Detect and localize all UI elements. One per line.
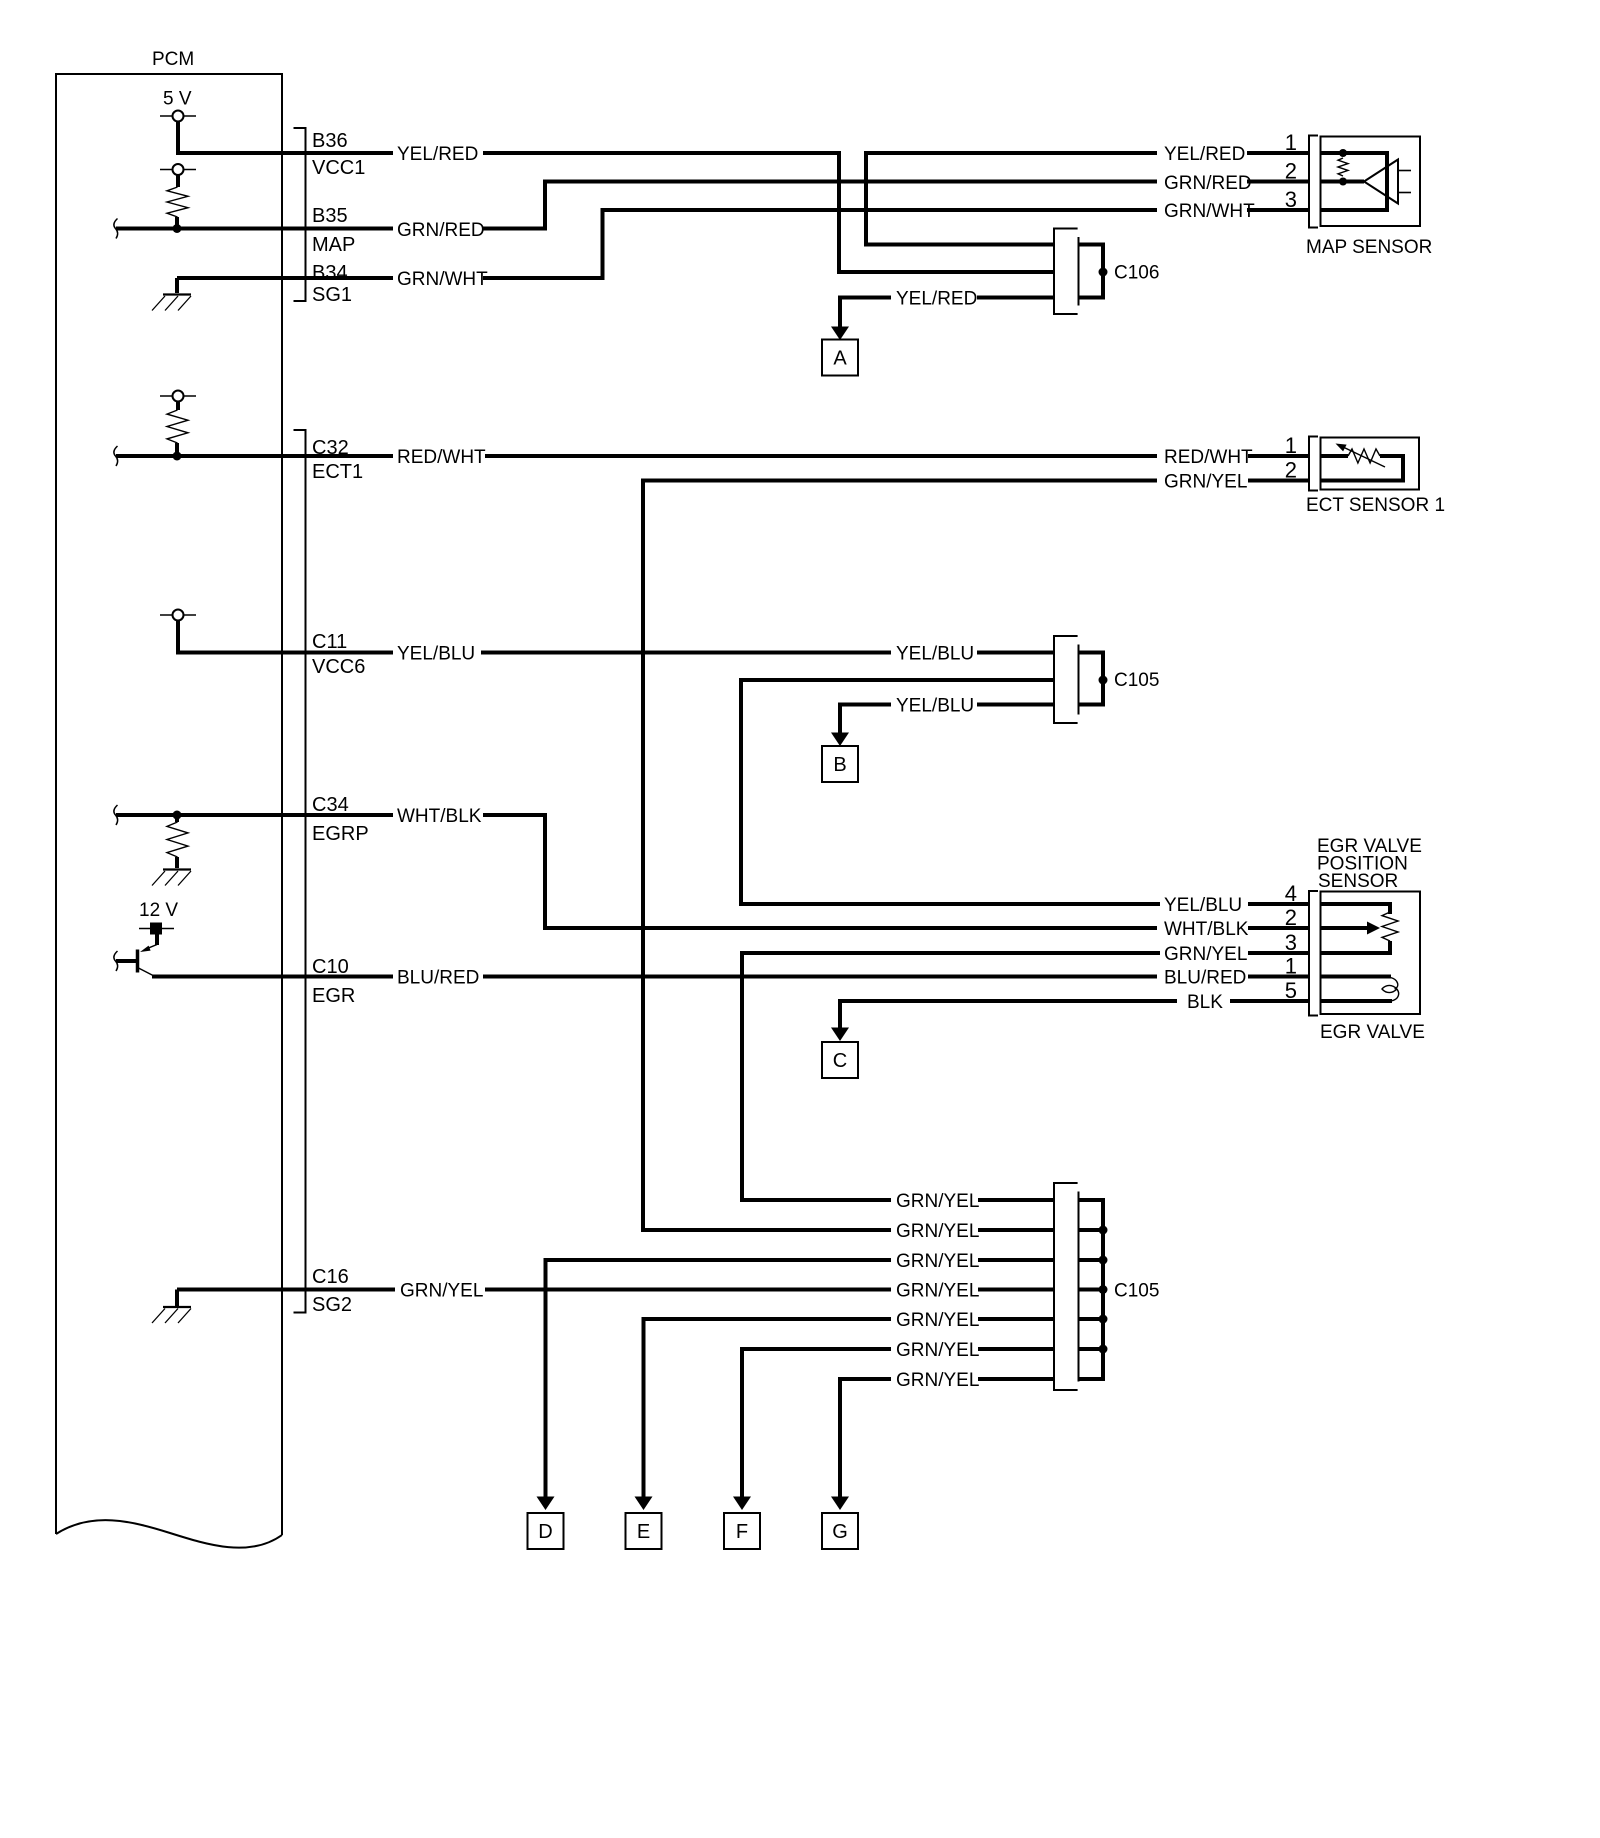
svg-text:EGRP: EGRP bbox=[312, 823, 369, 845]
svg-text:3: 3 bbox=[1285, 187, 1297, 212]
wire B35 GRN/RED to MAP pin2 bbox=[483, 182, 1157, 229]
svg-text:C: C bbox=[833, 1050, 847, 1072]
wire label BLK (EGR pin5) bbox=[1187, 992, 1223, 1013]
pin bracket PCM connector C bbox=[294, 430, 306, 1313]
wire GRN/YEL C105 pin3 to D bbox=[546, 1260, 892, 1497]
wire-break squiggle C32 bbox=[114, 446, 118, 466]
wire label YEL/BLU (C105 pin) bbox=[896, 644, 974, 665]
wire GRN/YEL C105 pin7 stub bbox=[978, 1377, 1054, 1381]
arrow to F bbox=[733, 1497, 751, 1511]
pin label B36 bbox=[312, 130, 348, 152]
svg-text:B34: B34 bbox=[312, 262, 348, 284]
pin label C16 bbox=[312, 1266, 349, 1288]
svg-text:BLU/RED: BLU/RED bbox=[1164, 968, 1246, 989]
wire WHT/BLK EGR pin2 stub bbox=[1248, 926, 1308, 930]
wire GRN/YEL C105 pin6 stub bbox=[978, 1347, 1054, 1351]
svg-text:GRN/WHT: GRN/WHT bbox=[397, 269, 488, 290]
junction dot C34 bbox=[173, 811, 182, 820]
wire label BLU/RED (EGR pin1) bbox=[1164, 968, 1246, 989]
svg-text:WHT/BLK: WHT/BLK bbox=[397, 806, 482, 827]
svg-text:GRN/YEL: GRN/YEL bbox=[896, 1221, 979, 1242]
label PCM bbox=[152, 49, 194, 70]
svg-text:YEL/RED: YEL/RED bbox=[1164, 144, 1245, 165]
wire GRN/YEL ECT pin2 to C105 bbox=[643, 481, 1157, 1231]
svg-text:2: 2 bbox=[1285, 159, 1297, 184]
svg-text:SG1: SG1 bbox=[312, 284, 352, 306]
svg-text:B36: B36 bbox=[312, 130, 348, 152]
wire label YEL/BLU (EGR pin4) bbox=[1164, 895, 1242, 916]
svg-text:C16: C16 bbox=[312, 1266, 349, 1288]
pin number 3 (MAP) bbox=[1285, 187, 1297, 212]
wire 12V to transistor bbox=[155, 935, 159, 946]
pin label EGRP bbox=[312, 823, 369, 845]
arrow to D bbox=[537, 1497, 555, 1511]
svg-text:GRN/YEL: GRN/YEL bbox=[896, 1370, 979, 1391]
svg-text:C10: C10 bbox=[312, 956, 349, 978]
svg-text:EGR VALVE: EGR VALVE bbox=[1320, 1022, 1425, 1043]
svg-text:RED/WHT: RED/WHT bbox=[1164, 447, 1253, 468]
junction dot B35 bbox=[173, 224, 182, 233]
wire GRN/YEL C105 pin4 stub bbox=[978, 1288, 1054, 1292]
junction dot MAP pin2 bbox=[1339, 178, 1347, 186]
arrow to B bbox=[831, 733, 849, 747]
wire C16 GRN/YEL to C105 pin4 bbox=[485, 1288, 891, 1292]
pin label EGR bbox=[312, 985, 355, 1007]
wire B36 YEL/RED to C106 bbox=[483, 153, 1054, 272]
svg-text:A: A bbox=[833, 348, 847, 370]
wire-break squiggle B35 bbox=[114, 219, 118, 239]
pin label B34 bbox=[312, 262, 348, 284]
resistor MAP internal bbox=[1338, 158, 1348, 176]
svg-text:GRN/RED: GRN/RED bbox=[397, 220, 485, 241]
wire C11 VCC6 inside PCM bbox=[178, 621, 393, 653]
wire C32 RED/WHT to ECT sensor bbox=[485, 454, 1157, 458]
junction dot MAP pin1 bbox=[1339, 149, 1347, 157]
wire label GRN/YEL (C105 pin6) bbox=[896, 1340, 979, 1361]
wire GRN/YEL C105 pin6 to F bbox=[742, 1349, 891, 1497]
wire label GRN/RED (MAP pin2) bbox=[1164, 173, 1252, 194]
svg-text:2: 2 bbox=[1285, 905, 1297, 930]
wire BLK EGR pin5 stub bbox=[1230, 999, 1308, 1003]
pin label SG1 bbox=[312, 284, 352, 306]
svg-text:GRN/WHT: GRN/WHT bbox=[1164, 201, 1255, 222]
power terminal (MAP pull-up) bbox=[160, 164, 196, 175]
pin number 2 (ECT) bbox=[1285, 458, 1297, 483]
destination box D bbox=[528, 1513, 564, 1549]
resistor ECT pull-up bbox=[167, 402, 188, 453]
transistor Q1 (EGR driver) bbox=[138, 945, 158, 977]
op-amp MAP sensor element bbox=[1364, 160, 1411, 204]
arrow to C bbox=[831, 1028, 849, 1042]
power terminal 5V VCC1 bbox=[160, 111, 196, 122]
wire GRN/YEL C105 pin2 stub bbox=[978, 1228, 1054, 1232]
svg-text:SG2: SG2 bbox=[312, 1294, 352, 1316]
wire YEL/BLU B-side stub bbox=[977, 703, 1054, 707]
junction dot C32 bbox=[173, 452, 182, 461]
MAP internal wire pin 2 bbox=[1321, 180, 1365, 184]
svg-text:VCC1: VCC1 bbox=[312, 157, 365, 179]
wire B35 MAP inside PCM bbox=[116, 227, 393, 231]
wire label YEL/RED (B36) bbox=[397, 144, 478, 165]
connector C105 (upper) bbox=[1054, 636, 1159, 723]
solenoid coil EGR valve bbox=[1382, 978, 1399, 1001]
pin number 1 (EGR valve) bbox=[1285, 954, 1297, 979]
MAP internal wire pins 1-3 bbox=[1321, 153, 1388, 210]
pin label SG2 bbox=[312, 1294, 352, 1316]
wire YEL/BLU C105 to EGR position sensor pin4 bbox=[741, 680, 1160, 904]
svg-text:12 V: 12 V bbox=[139, 900, 178, 921]
pin number 2 (EGR pos) bbox=[1285, 905, 1297, 930]
svg-text:RED/WHT: RED/WHT bbox=[397, 447, 486, 468]
svg-text:5 V: 5 V bbox=[163, 89, 192, 110]
label MAP SENSOR bbox=[1306, 237, 1432, 258]
pin number 3 (EGR pos) bbox=[1285, 930, 1297, 955]
wire C34 EGRP inside PCM bbox=[116, 813, 393, 817]
EGR position wiper wire bbox=[1321, 926, 1368, 930]
EGR position sensor track wires bbox=[1321, 904, 1391, 953]
wire label YEL/RED (to A) bbox=[896, 289, 977, 310]
ground SG1 bbox=[152, 278, 191, 311]
svg-text:ECT SENSOR 1: ECT SENSOR 1 bbox=[1306, 495, 1445, 516]
ground (EGRP) bbox=[152, 870, 191, 886]
connector C106 bbox=[1054, 229, 1159, 315]
wire Q1 base bbox=[116, 959, 136, 963]
wire BLU/RED EGR pin1 stub bbox=[1248, 975, 1308, 979]
svg-text:1: 1 bbox=[1285, 954, 1297, 979]
pin label C10 bbox=[312, 956, 349, 978]
wire B34 SG1 inside PCM bbox=[177, 276, 393, 280]
svg-text:C105: C105 bbox=[1114, 670, 1159, 691]
svg-text:C32: C32 bbox=[312, 437, 349, 459]
label POSITION (sensor line2) bbox=[1317, 854, 1408, 875]
svg-text:SENSOR: SENSOR bbox=[1318, 871, 1398, 892]
ECT internal wires bbox=[1321, 456, 1404, 481]
pin label VCC1 bbox=[312, 157, 365, 179]
wire YEL/BLU C105 stub bbox=[977, 651, 1054, 655]
wire label GRN/WHT (MAP pin3) bbox=[1164, 201, 1255, 222]
wire YEL/BLU EGR pin4 stub bbox=[1248, 902, 1308, 906]
svg-text:GRN/RED: GRN/RED bbox=[1164, 173, 1252, 194]
wire YEL/RED branch to A bbox=[840, 298, 891, 330]
wire label GRN/WHT (B34) bbox=[397, 269, 488, 290]
wire label GRN/RED (B35) bbox=[397, 220, 485, 241]
wire label YEL/RED (MAP pin1) bbox=[1164, 144, 1245, 165]
wire GRN/YEL C105 pin1 stub bbox=[978, 1198, 1054, 1202]
wire label RED/WHT (ECT pin1) bbox=[1164, 447, 1253, 468]
arrow to G bbox=[831, 1497, 849, 1511]
EGR position wiper arrow bbox=[1367, 922, 1380, 935]
svg-text:YEL/BLU: YEL/BLU bbox=[896, 644, 974, 665]
wire GRN/YEL C105 pin7 to G bbox=[840, 1379, 891, 1497]
svg-text:E: E bbox=[637, 1521, 650, 1543]
power terminal (ECT pull-up) bbox=[160, 391, 196, 402]
wire label GRN/YEL (EGR pin3) bbox=[1164, 944, 1247, 965]
svg-text:1: 1 bbox=[1285, 130, 1297, 155]
wire B34 GRN/WHT to MAP pin3 bbox=[483, 210, 1157, 278]
ground SG2 bbox=[152, 1290, 191, 1324]
connector C105 (lower) bbox=[1054, 1183, 1159, 1390]
pin number 5 (EGR valve) bbox=[1285, 978, 1297, 1003]
wire C10 EGR inside PCM bbox=[152, 975, 393, 979]
svg-text:C11: C11 bbox=[312, 631, 347, 653]
svg-text:BLK: BLK bbox=[1187, 992, 1223, 1013]
svg-text:1: 1 bbox=[1285, 433, 1297, 458]
label EGR VALVE (valve) bbox=[1320, 1022, 1425, 1043]
destination box B bbox=[822, 746, 858, 782]
wire GRN/YEL EGR pin3 stub bbox=[1248, 951, 1308, 955]
svg-text:C34: C34 bbox=[312, 794, 349, 816]
wire label GRN/YEL (ECT pin2) bbox=[1164, 472, 1247, 493]
wire label GRN/YEL (C105 pin4) bbox=[896, 1281, 979, 1302]
destination box A bbox=[822, 340, 858, 376]
wire-break squiggle C34 bbox=[114, 805, 118, 825]
svg-text:YEL/BLU: YEL/BLU bbox=[397, 644, 475, 665]
pin label C32 bbox=[312, 437, 349, 459]
wire YEL/BLU branch to B bbox=[840, 705, 891, 736]
svg-text:MAP: MAP bbox=[312, 234, 355, 256]
pin label B35 bbox=[312, 205, 348, 227]
svg-text:GRN/YEL: GRN/YEL bbox=[896, 1281, 979, 1302]
svg-text:GRN/YEL: GRN/YEL bbox=[896, 1191, 979, 1212]
svg-text:MAP SENSOR: MAP SENSOR bbox=[1306, 237, 1432, 258]
wire RED/WHT ECT pin1 stub bbox=[1248, 454, 1308, 458]
supply terminal 12V bbox=[139, 923, 174, 935]
label EGR VALVE (sensor line1) bbox=[1317, 836, 1422, 857]
ECT sensor box bbox=[1321, 438, 1420, 490]
wire YEL/RED C106 to MAP pin1 bbox=[866, 153, 1157, 245]
arrow to A bbox=[831, 327, 849, 341]
wire label GRN/YEL (C16) bbox=[400, 1281, 483, 1302]
svg-text:GRN/YEL: GRN/YEL bbox=[1164, 472, 1247, 493]
resistor EGR position track bbox=[1382, 912, 1398, 941]
wire YEL/RED MAP pin1 stub bbox=[1247, 151, 1308, 155]
destination box G bbox=[822, 1513, 858, 1549]
svg-text:C105: C105 bbox=[1114, 1281, 1159, 1302]
svg-text:D: D bbox=[538, 1521, 552, 1543]
resistor EGRP pull-down bbox=[167, 815, 188, 868]
wire C32 ECT1 inside PCM bbox=[116, 454, 393, 458]
wire C11 YEL/BLU to C105 bbox=[481, 651, 891, 655]
svg-text:YEL/RED: YEL/RED bbox=[397, 144, 478, 165]
wire-break squiggle Q1 base bbox=[114, 951, 118, 971]
wire label GRN/YEL (C105 pin5) bbox=[896, 1310, 979, 1331]
wire GRN/RED MAP pin2 stub bbox=[1247, 180, 1308, 184]
pin number 4 (EGR pos) bbox=[1285, 881, 1297, 906]
wire GRN/WHT MAP pin3 stub bbox=[1247, 208, 1308, 212]
pin label C34 bbox=[312, 794, 349, 816]
wire GRN/YEL C105 pin5 stub bbox=[978, 1317, 1054, 1321]
wire label YEL/BLU (to B) bbox=[896, 696, 974, 717]
pin label C11 bbox=[312, 631, 347, 653]
wire GRN/YEL EGR pin3 to C105 lower bbox=[742, 953, 1160, 1200]
wire YEL/RED A-side stub bbox=[977, 296, 1054, 300]
svg-text:GRN/YEL: GRN/YEL bbox=[896, 1310, 979, 1331]
resistor MAP pull-up bbox=[167, 175, 188, 225]
MAP sensor box bbox=[1321, 137, 1421, 227]
thermistor ECT bbox=[1336, 444, 1386, 468]
wire label GRN/YEL (C105 pin3) bbox=[896, 1251, 979, 1272]
svg-text:F: F bbox=[736, 1521, 748, 1543]
svg-text:WHT/BLK: WHT/BLK bbox=[1164, 919, 1249, 940]
pin bracket PCM connector B bbox=[294, 128, 306, 301]
svg-text:VCC6: VCC6 bbox=[312, 656, 365, 678]
pin label VCC6 bbox=[312, 656, 365, 678]
wire GRN/YEL ECT pin2 stub bbox=[1248, 479, 1308, 483]
svg-text:YEL/RED: YEL/RED bbox=[896, 289, 977, 310]
pin number 1 (MAP) bbox=[1285, 130, 1297, 155]
wire C34 WHT/BLK to EGR position sensor pin2 bbox=[483, 815, 1157, 928]
pin number 2 (MAP) bbox=[1285, 159, 1297, 184]
label ECT SENSOR 1 bbox=[1306, 495, 1445, 516]
wire label GRN/YEL (C105 pin7) bbox=[896, 1370, 979, 1391]
svg-text:ECT1: ECT1 bbox=[312, 461, 363, 483]
wire label GRN/YEL (C105 pin1) bbox=[896, 1191, 979, 1212]
pin number 1 (ECT) bbox=[1285, 433, 1297, 458]
wire C16 SG2 inside PCM bbox=[177, 1288, 395, 1292]
svg-text:GRN/YEL: GRN/YEL bbox=[1164, 944, 1247, 965]
destination box F bbox=[724, 1513, 760, 1549]
connector at MAP sensor bbox=[1309, 136, 1318, 228]
destination box E bbox=[626, 1513, 662, 1549]
wire GRN/YEL C105 pin5 to E bbox=[644, 1319, 892, 1497]
wire label BLU/RED (C10) bbox=[397, 968, 479, 989]
svg-text:BLU/RED: BLU/RED bbox=[397, 968, 479, 989]
svg-text:C106: C106 bbox=[1114, 263, 1159, 284]
svg-text:EGR: EGR bbox=[312, 985, 355, 1007]
wire C10 BLU/RED to EGR valve pin1 bbox=[483, 975, 1157, 979]
svg-text:G: G bbox=[832, 1521, 848, 1543]
svg-text:GRN/YEL: GRN/YEL bbox=[896, 1340, 979, 1361]
connector at ECT sensor bbox=[1309, 437, 1318, 491]
arrow to E bbox=[635, 1497, 653, 1511]
power terminal VCC6 bbox=[160, 610, 196, 621]
label 5 V bbox=[163, 89, 192, 110]
PCM module box bbox=[56, 74, 282, 1548]
pin label MAP bbox=[312, 234, 355, 256]
svg-text:2: 2 bbox=[1285, 458, 1297, 483]
svg-text:PCM: PCM bbox=[152, 49, 194, 70]
destination box C bbox=[822, 1042, 858, 1078]
pin label ECT1 bbox=[312, 461, 363, 483]
svg-text:GRN/YEL: GRN/YEL bbox=[400, 1281, 483, 1302]
wire label RED/WHT (C32) bbox=[397, 447, 486, 468]
wire label YEL/BLU (C11) bbox=[397, 644, 475, 665]
EGR valve assembly box bbox=[1321, 892, 1421, 1015]
wire label GRN/YEL (C105 pin2) bbox=[896, 1221, 979, 1242]
connector at EGR valve assembly bbox=[1309, 891, 1318, 1016]
wire BLK EGR pin5 to C bbox=[840, 1001, 1177, 1030]
svg-text:B: B bbox=[833, 754, 846, 776]
svg-text:YEL/BLU: YEL/BLU bbox=[1164, 895, 1242, 916]
wire VCC1 5V feed (B36) bbox=[178, 122, 393, 154]
EGR valve solenoid wires bbox=[1321, 977, 1393, 1002]
label SENSOR (sensor line3) bbox=[1318, 871, 1398, 892]
label 12 V bbox=[139, 900, 178, 921]
wire GRN/YEL C105 pin3 stub bbox=[978, 1258, 1054, 1262]
svg-text:GRN/YEL: GRN/YEL bbox=[896, 1251, 979, 1272]
svg-text:YEL/BLU: YEL/BLU bbox=[896, 696, 974, 717]
svg-text:B35: B35 bbox=[312, 205, 348, 227]
wire label WHT/BLK (C34) bbox=[397, 806, 482, 827]
wire label WHT/BLK (EGR pin2) bbox=[1164, 919, 1249, 940]
